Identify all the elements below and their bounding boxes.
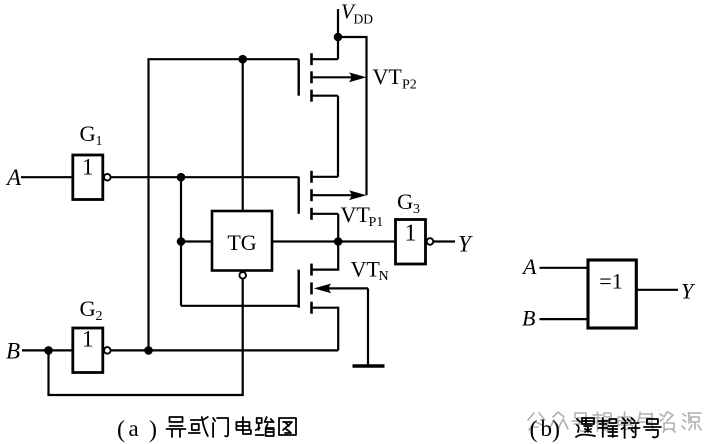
svg-text:P2: P2 (402, 78, 417, 93)
label VT_P2 (373, 64, 417, 93)
ground (353, 364, 385, 368)
XOR symbol box =1 (588, 260, 636, 328)
label VT_P1 (341, 202, 384, 230)
bubble G3 output (427, 238, 434, 245)
svg-text:G: G (397, 189, 413, 214)
bubble G2 output (104, 347, 111, 354)
wire TG top input (242, 59, 244, 211)
wire Y output (433, 240, 455, 242)
svg-text:3: 3 (413, 202, 420, 217)
svg-text:1: 1 (405, 221, 417, 247)
svg-text:N: N (379, 269, 389, 284)
inverter G3 (396, 220, 426, 265)
svg-text:G: G (80, 296, 96, 321)
junction dot B (44, 346, 53, 355)
svg-text:B: B (522, 306, 535, 331)
watermark gongzhonghao electric resources (528, 412, 701, 432)
label VT_N (351, 257, 389, 285)
wire A input (21, 176, 73, 178)
svg-text:1: 1 (96, 134, 103, 149)
wire VT_N substrate to ground (367, 288, 369, 365)
wire A-bar vertical (180, 177, 182, 306)
transistor VT_P1 (299, 171, 367, 220)
junction dot V_DD (334, 33, 343, 42)
transmission gate TG (212, 211, 272, 271)
svg-text:Y: Y (458, 232, 473, 257)
svg-text:2: 2 (96, 309, 103, 324)
wire B input (22, 349, 73, 351)
label V_DD (341, 0, 373, 27)
svg-text:P1: P1 (369, 215, 384, 230)
transistor VT_N (299, 242, 368, 351)
wire B-bar vertical to VT_P2 gate (149, 59, 299, 350)
wire TG left input (181, 240, 212, 242)
label G3 (397, 189, 420, 217)
svg-text:): ) (149, 417, 157, 443)
svg-text:TG: TG (227, 230, 256, 255)
svg-text:b: b (541, 416, 553, 441)
label G1 (80, 121, 103, 149)
svg-text:G: G (80, 121, 96, 146)
bubble TG bottom (239, 272, 246, 279)
wire symbol output Y (636, 289, 678, 291)
svg-text:VT: VT (373, 64, 403, 89)
caption (b) logic symbol (530, 416, 661, 443)
svg-text:(: ( (117, 417, 125, 443)
svg-text:A: A (521, 254, 537, 279)
junction dot TG top (238, 55, 247, 64)
svg-text:Y: Y (681, 279, 696, 304)
svg-text:DD: DD (354, 12, 374, 27)
svg-text:a: a (129, 416, 139, 441)
svg-text:(: ( (530, 417, 538, 443)
wire V_DD rail to substrate (338, 37, 367, 195)
wire A-bar to VT_N gate (181, 305, 300, 307)
wire symbol input A (540, 267, 589, 269)
svg-text:): ) (552, 417, 560, 443)
wire symbol input B (540, 318, 589, 320)
wire V_DD stem (337, 9, 339, 59)
svg-text:A: A (5, 165, 22, 190)
wire VT_P1 source to output node (337, 214, 339, 242)
svg-text:VT: VT (341, 202, 371, 227)
svg-text:=1: =1 (599, 269, 622, 294)
junction dot internal output node (334, 237, 343, 246)
svg-text:1: 1 (82, 327, 94, 352)
wire G1 output to VT_P1 gate, node A-bar (111, 176, 299, 178)
bubble G1 output (104, 174, 111, 181)
transistor VT_P2 (299, 53, 367, 101)
label G2 (80, 296, 103, 324)
wire B to TG bottom (49, 279, 243, 395)
inverter G1 (73, 155, 103, 200)
wire G2 output, node B-bar (111, 349, 339, 351)
junction dot TG left (177, 237, 186, 246)
svg-text:VT: VT (351, 257, 381, 282)
caption (a) XOR gate circuit diagram (117, 416, 296, 443)
junction dot B-bar (144, 346, 153, 355)
junction dot A-bar (177, 173, 186, 182)
svg-text:B: B (6, 339, 20, 364)
wire TG output to G3 input (272, 240, 396, 242)
wire VT_P2 source to VT_P1 drain (337, 96, 339, 177)
svg-text:1: 1 (82, 155, 94, 180)
inverter G2 (73, 327, 103, 373)
